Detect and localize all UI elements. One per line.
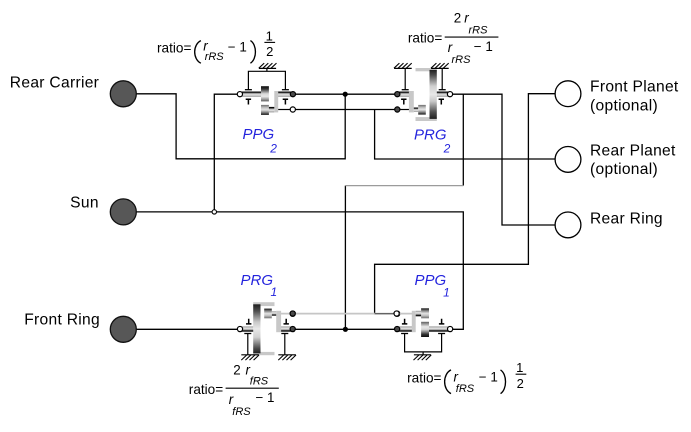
- formula ratio PRG2: [408, 10, 493, 66]
- svg-text:rRS: rRS: [452, 54, 472, 66]
- component PRG2: [394, 63, 453, 121]
- node Front Planet: [555, 81, 581, 107]
- svg-text:2: 2: [443, 141, 451, 155]
- wire Sun junction up to PPG2 sun port: [214, 94, 240, 212]
- svg-text:1: 1: [271, 285, 278, 299]
- node Rear Carrier: [110, 81, 136, 107]
- junction dot bottom: [343, 327, 348, 332]
- wire dark overlay planet link: [375, 313, 394, 315]
- svg-text:(optional): (optional): [590, 161, 658, 178]
- node Front Ring: [110, 316, 136, 342]
- svg-text:ratio=: ratio=: [407, 371, 441, 386]
- svg-text:Front Planet: Front Planet: [590, 79, 679, 96]
- wire vertical at 463: [462, 94, 464, 185]
- svg-text:ratio=: ratio=: [157, 40, 191, 55]
- node Rear Planet: [555, 147, 581, 173]
- svg-text:rRS: rRS: [205, 51, 225, 63]
- formula ratio PPG1: [407, 360, 524, 395]
- svg-text:− 1: − 1: [228, 39, 247, 54]
- svg-text:− 1: − 1: [256, 390, 275, 405]
- component PRG1 (rotated PRG): [237, 302, 296, 360]
- wire vertical node A to Front Ring line: [344, 186, 346, 330]
- svg-text:2: 2: [269, 141, 277, 155]
- wire Front Ring to PRG1 left port: [136, 328, 239, 330]
- svg-text:Rear Carrier: Rear Carrier: [10, 74, 99, 91]
- svg-text:Sun: Sun: [70, 194, 99, 211]
- svg-text:rRS: rRS: [469, 25, 489, 37]
- svg-text:PRG: PRG: [241, 272, 274, 289]
- svg-text:Front Ring: Front Ring: [24, 311, 100, 328]
- port PRG1 planet: [290, 311, 295, 316]
- formula ratio PRG1: [189, 362, 275, 418]
- wire PRG1 right to PPG1 left: [293, 328, 399, 330]
- wire PRG2 right to Rear Ring: [450, 94, 555, 225]
- svg-text:PPG: PPG: [415, 272, 447, 289]
- svg-text:fRS: fRS: [232, 406, 251, 418]
- svg-text:fRS: fRS: [250, 376, 269, 388]
- wire gray ring link: [345, 185, 463, 187]
- svg-text:Rear Ring: Rear Ring: [590, 211, 663, 228]
- svg-text:2: 2: [266, 44, 273, 59]
- svg-text:1: 1: [266, 29, 273, 44]
- svg-text:2: 2: [517, 376, 524, 391]
- port PPG1 planet: [394, 311, 399, 316]
- svg-text:− 1: − 1: [474, 39, 493, 54]
- svg-text:r: r: [464, 10, 469, 25]
- wire Sun to PPG1 right port: [136, 212, 463, 329]
- junction dot top: [343, 92, 348, 97]
- svg-text:1: 1: [516, 360, 523, 375]
- wire branch to Rear Planet: [375, 110, 556, 160]
- svg-text:r: r: [448, 40, 453, 55]
- svg-text:1: 1: [443, 285, 450, 299]
- wire PPG2 lower to PRG2 lower: [293, 109, 398, 111]
- svg-text:ratio=: ratio=: [408, 30, 442, 45]
- component PPG1 (rotated PPG): [395, 308, 453, 360]
- wire PPG2 right to PRG2 left (shaft wire): [293, 93, 397, 95]
- svg-text:r: r: [229, 392, 234, 407]
- svg-text:fRS: fRS: [456, 383, 475, 395]
- svg-text:2: 2: [454, 10, 461, 25]
- svg-text:2: 2: [233, 362, 240, 377]
- junction circle Sun: [212, 210, 216, 214]
- svg-text:PRG: PRG: [414, 126, 447, 143]
- wire Front Planet to PPG1 upper port: [375, 94, 556, 314]
- wire gray planet link: [281, 313, 413, 315]
- formula ratio PPG2: [157, 29, 273, 64]
- svg-text:ratio=: ratio=: [189, 382, 223, 397]
- wire Rear Carrier to node A: [136, 94, 345, 159]
- component PPG2: [237, 63, 295, 115]
- svg-text:Rear Planet: Rear Planet: [590, 143, 676, 160]
- node Rear Ring: [555, 212, 581, 238]
- svg-text:− 1: − 1: [479, 370, 498, 385]
- node Sun: [110, 199, 136, 225]
- svg-text:(optional): (optional): [590, 98, 658, 115]
